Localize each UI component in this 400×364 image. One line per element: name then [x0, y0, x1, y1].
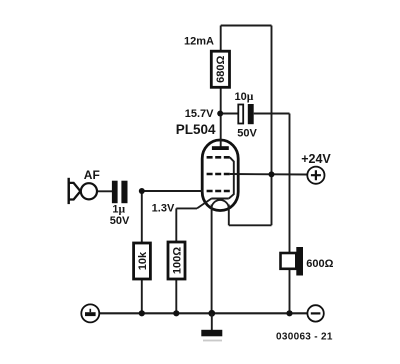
node rail 10k	[139, 310, 145, 316]
svg-text:15.7V: 15.7V	[185, 108, 214, 120]
wire anode lead vertical from top loop to anode	[220, 26, 222, 148]
svg-text:680Ω: 680Ω	[215, 56, 227, 83]
node input grid	[139, 188, 145, 194]
node rail 100 ohm	[173, 310, 179, 316]
resistor 100 ohm body	[168, 242, 185, 279]
tube beam grid g3 dashed	[207, 156, 231, 159]
speaker 600 ohm box	[281, 253, 297, 269]
wire speaker to ground rail	[289, 268, 291, 313]
capacitor 1u left plate	[112, 181, 118, 204]
svg-text:12mA: 12mA	[184, 36, 214, 48]
connector AF plug	[69, 183, 81, 200]
tube anode plate bar	[212, 146, 229, 150]
svg-text:PL504: PL504	[176, 122, 216, 137]
svg-text:1.3V: 1.3V	[152, 203, 175, 215]
wire output capacitor to corner	[254, 113, 290, 115]
wire screen grid to +24V	[230, 173, 308, 176]
wire ground rail	[99, 312, 307, 314]
svg-text:50V: 50V	[237, 128, 257, 140]
wire top horizontal	[221, 25, 272, 27]
resistor 10k body	[134, 243, 151, 279]
wire right vertical supply	[271, 26, 273, 226]
terminal minus sign	[311, 312, 321, 314]
svg-text:AF: AF	[84, 168, 100, 182]
wire AF socket to coupling capacitor	[97, 190, 112, 192]
svg-text:50V: 50V	[110, 215, 130, 227]
wire output vertical to speaker	[289, 114, 291, 255]
wire heater left leg to ground rail	[211, 205, 213, 314]
connector AF socket circle	[81, 183, 97, 199]
tube heater arc	[212, 200, 229, 209]
svg-text:+24V: +24V	[301, 152, 331, 166]
ground symbol bar	[201, 330, 222, 337]
ground symbol stub	[211, 313, 213, 330]
wire heater return horizontal	[229, 224, 272, 226]
wire heater right leg	[228, 205, 230, 226]
node anode 15.7V	[217, 111, 223, 117]
capacitor 1u right plate	[121, 181, 127, 204]
terminal minus circle	[307, 305, 323, 321]
svg-text:100Ω: 100Ω	[171, 247, 183, 274]
tube cathode line	[211, 198, 229, 200]
terminal +24V circle	[307, 167, 324, 184]
svg-text:1µ: 1µ	[112, 204, 125, 216]
wire anode node to output capacitor	[220, 113, 238, 115]
resistor 680 ohm body	[211, 51, 229, 87]
node rail heater ground	[208, 310, 215, 317]
tube g3 bend to cathode	[229, 157, 234, 198]
svg-text:10k: 10k	[137, 251, 149, 270]
node supply junction	[269, 171, 275, 177]
terminal ground chassis glyph	[89, 309, 91, 312]
wire input node down through 10k to rail	[141, 191, 143, 313]
tube V1 PL504 envelope	[202, 140, 238, 211]
speaker 600 ohm bar	[296, 247, 303, 276]
capacitor 10u left plate	[238, 105, 243, 124]
terminal +24V plus sign	[311, 170, 321, 180]
node rail speaker	[286, 310, 292, 316]
terminal ground circle	[81, 304, 99, 322]
wire cathode horizontal 1.3V	[176, 207, 197, 209]
ground symbol hatch shadow	[203, 340, 222, 342]
tube control grid g1 dashed	[207, 190, 231, 193]
capacitor 10u right plate	[248, 104, 254, 124]
svg-text:600Ω: 600Ω	[306, 258, 333, 270]
tube screen grid g2 dashed	[207, 173, 231, 176]
svg-text:030063 - 21: 030063 - 21	[276, 331, 333, 342]
svg-text:10µ: 10µ	[235, 91, 254, 103]
wire 100 ohm vertical to rail	[175, 208, 177, 313]
wire cathode diagonal	[197, 199, 212, 209]
connector AF plug bar	[67, 178, 69, 204]
wire input node to control grid	[142, 190, 203, 192]
